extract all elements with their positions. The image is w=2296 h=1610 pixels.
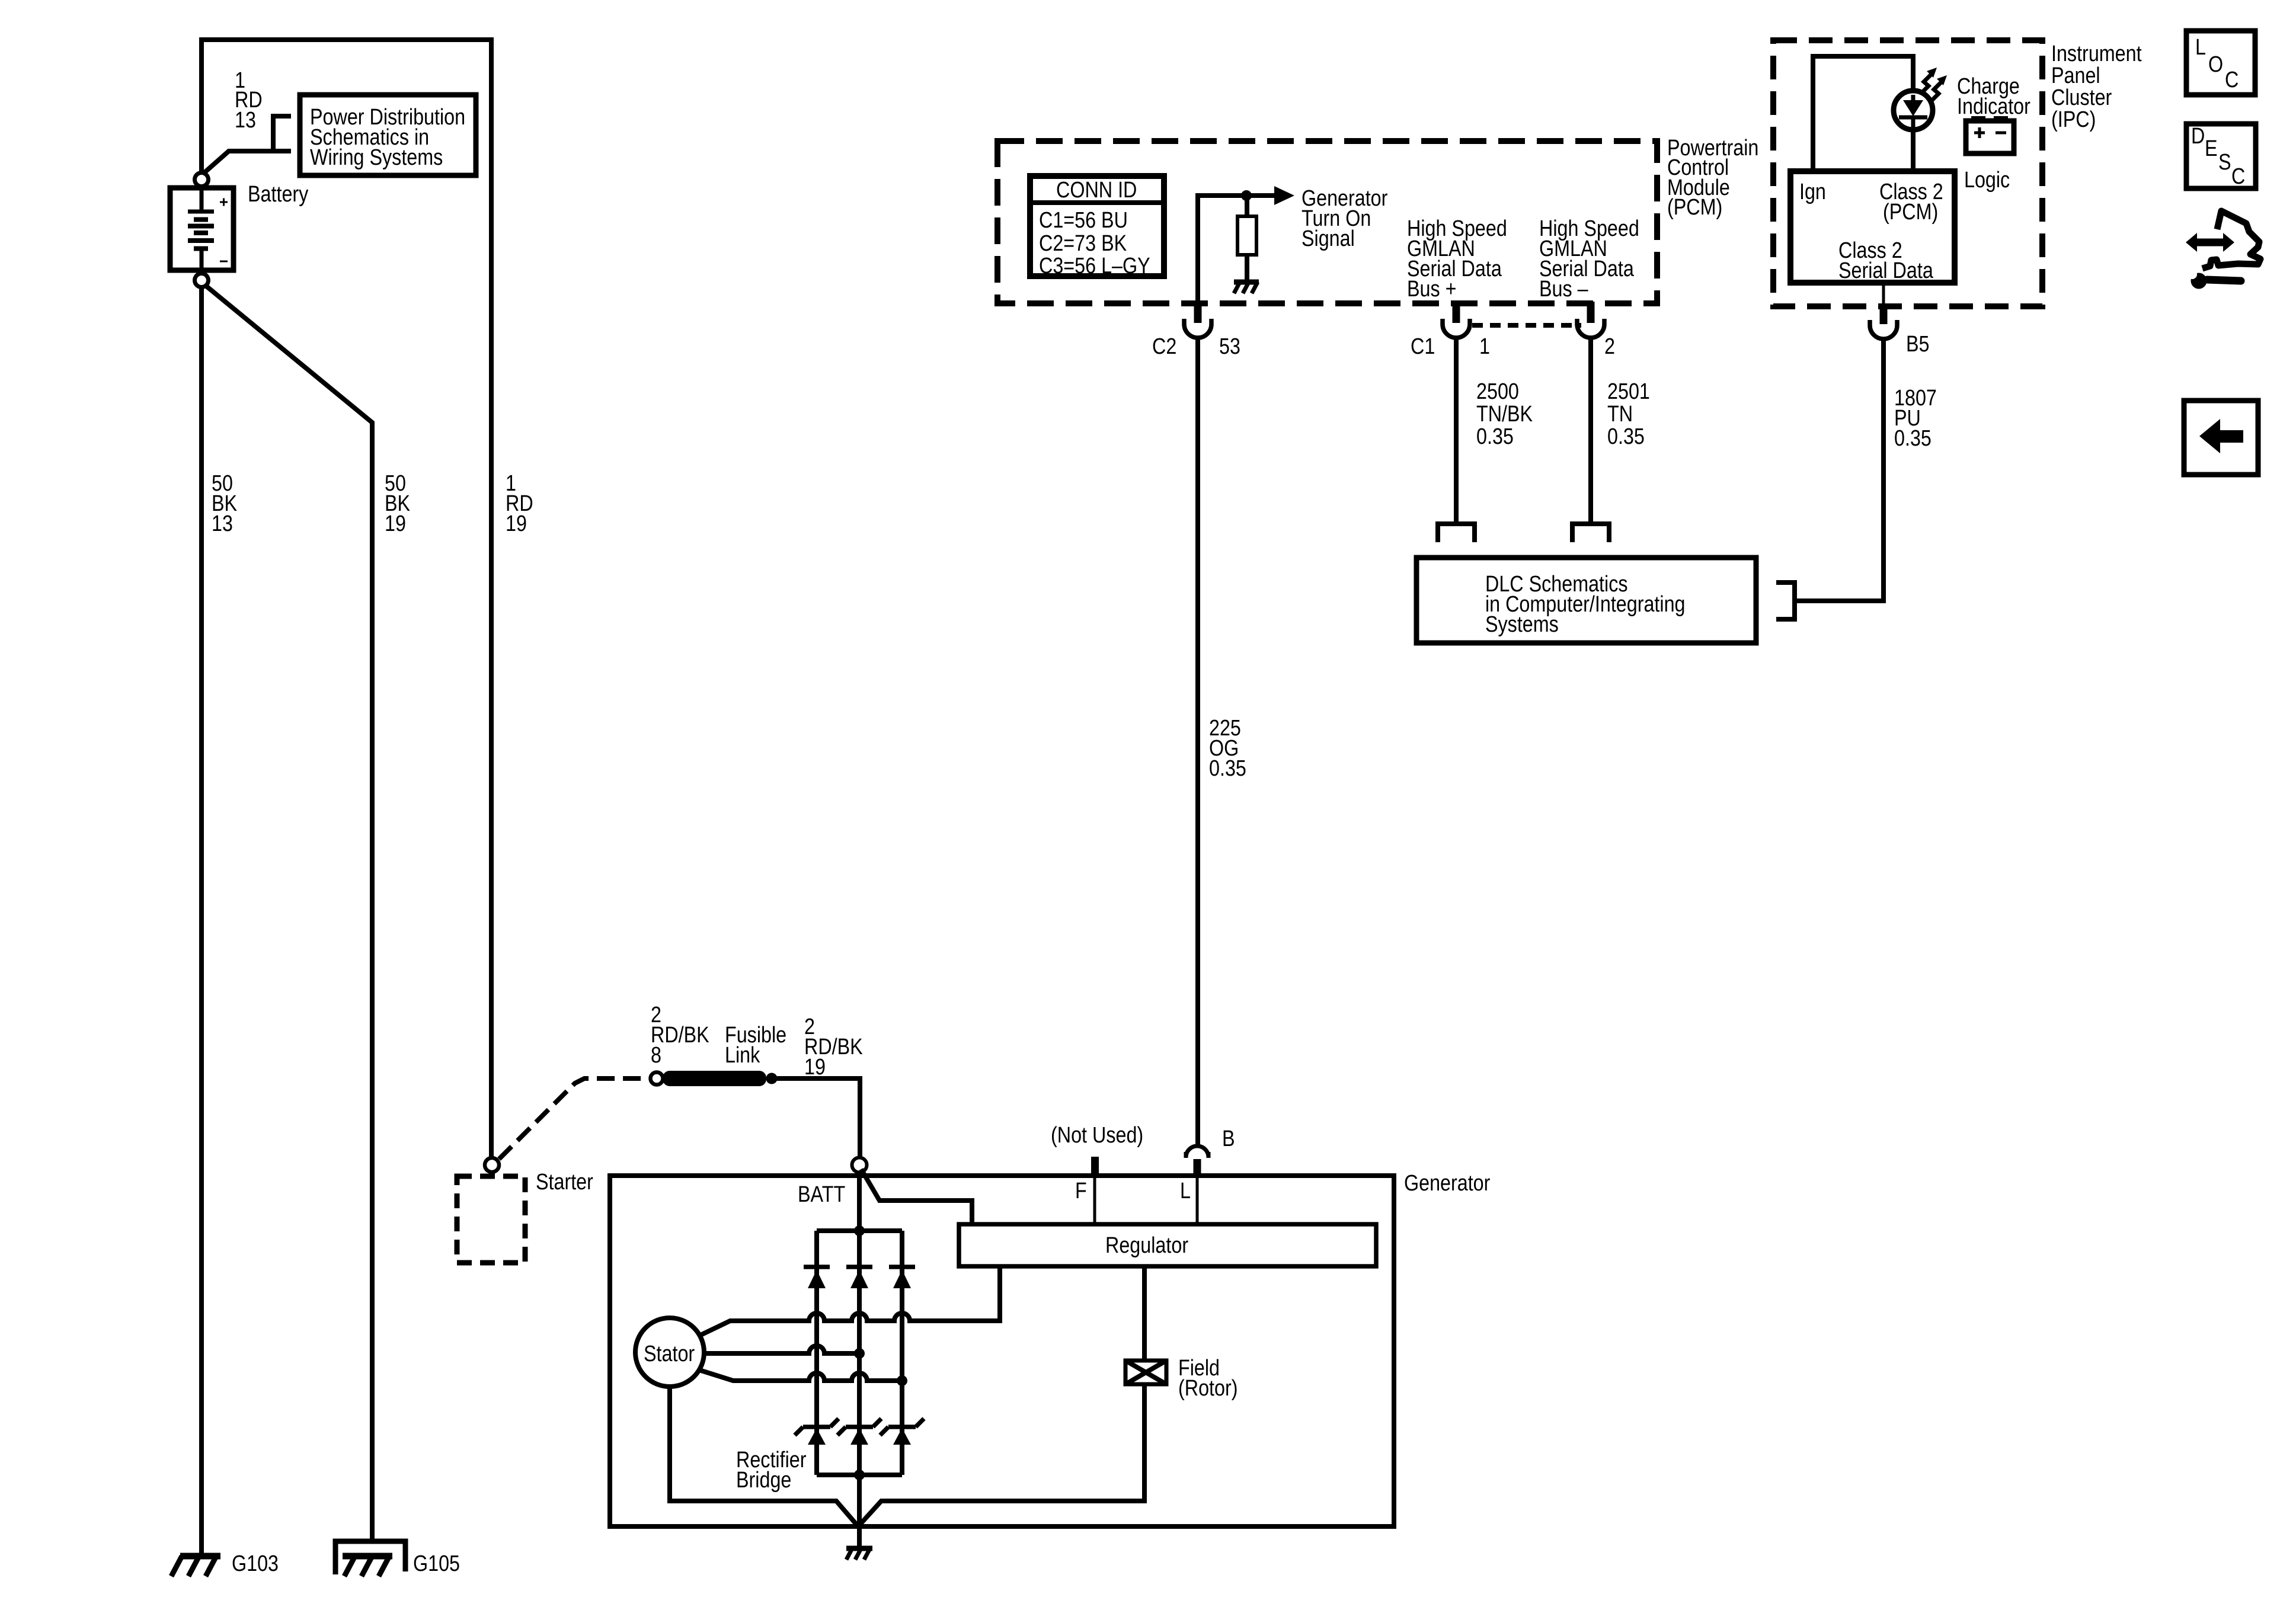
zener diode Z2 (lower, col2) <box>837 1419 881 1445</box>
legend back arrow box <box>2184 401 2258 475</box>
wire C2-53 internal to resistor node <box>1198 196 1246 302</box>
svg-text:Wiring Systems: Wiring Systems <box>310 145 443 170</box>
svg-text:G105: G105 <box>413 1551 460 1576</box>
wire 225 OG from C2 to generator B <box>1195 337 1200 1146</box>
battery B+ terminal circle <box>195 173 209 187</box>
legend jump icon double arrow <box>2186 233 2234 252</box>
svg-text:Indicator: Indicator <box>1957 94 2030 119</box>
starter dashed box <box>457 1176 525 1263</box>
svg-text:(PCM): (PCM) <box>1667 195 1722 220</box>
svg-text:2501: 2501 <box>1607 379 1650 404</box>
battery cell plates <box>200 187 204 273</box>
connector B half-circle <box>1186 1146 1208 1157</box>
svg-text:E: E <box>2205 136 2218 161</box>
ground G105 with bracket <box>335 1541 405 1576</box>
box Power Distribution Schematics in Wiring Systems <box>300 95 476 175</box>
svg-text:L: L <box>2195 35 2206 60</box>
wire field return to gather bus <box>858 1385 1144 1526</box>
svg-text:19: 19 <box>804 1055 826 1080</box>
battery telltale icon <box>1966 116 2014 153</box>
svg-text:Bus +: Bus + <box>1407 277 1457 302</box>
wire LED to logic box <box>1911 130 1916 171</box>
resistor R (pull-up) <box>1237 199 1256 281</box>
pin B5 stub <box>1880 303 1888 324</box>
off-page bracket DLC right <box>1776 582 1795 619</box>
svg-text:TN/BK: TN/BK <box>1476 402 1533 427</box>
svg-text:Cluster: Cluster <box>2051 85 2112 110</box>
svg-text:Stator: Stator <box>644 1342 695 1366</box>
junction dot fusible link right <box>766 1073 778 1084</box>
svg-text:(Rotor): (Rotor) <box>1178 1376 1238 1401</box>
wire stator common to gather bus <box>670 1387 858 1526</box>
svg-text:C1: C1 <box>1411 334 1435 359</box>
PCM dashed box <box>997 141 1657 303</box>
wire F pin to regulator <box>1093 1176 1096 1224</box>
svg-text:13: 13 <box>235 108 256 133</box>
rectifier bottom bus <box>817 1473 902 1477</box>
legend DESC box <box>2186 124 2256 189</box>
svg-text:Bridge: Bridge <box>736 1468 791 1493</box>
svg-text:0.35: 0.35 <box>1607 424 1645 449</box>
junction dot phase B col2 <box>854 1348 865 1359</box>
svg-text:8: 8 <box>651 1043 661 1068</box>
IPC logic box <box>1790 171 1955 283</box>
svg-text:Regulator: Regulator <box>1105 1233 1188 1258</box>
svg-text:19: 19 <box>385 511 406 536</box>
off-page bracket DLC pin 1 <box>1438 524 1475 542</box>
svg-text:L: L <box>1180 1179 1191 1204</box>
diode D2 (upper, col2) <box>846 1267 872 1288</box>
wire Ign loop to charge indicator <box>1813 56 1913 171</box>
svg-text:C2=73 BK: C2=73 BK <box>1039 231 1127 256</box>
wire 2500 TN/BK to DLC <box>1454 337 1459 524</box>
svg-text:Systems: Systems <box>1485 612 1559 637</box>
ground generator case <box>846 1548 872 1560</box>
wire logic box to B5 pin <box>1882 283 1885 304</box>
wire battery negative down to G103 <box>199 287 204 1554</box>
connector C2 cup <box>1184 319 1211 338</box>
battery plus mark <box>220 199 228 206</box>
fusible link F1 body <box>663 1071 766 1086</box>
wire BATT circle down to rectifier top bus <box>857 1172 862 1548</box>
svg-text:CONN ID: CONN ID <box>1056 178 1137 203</box>
connector 2 cup <box>1577 319 1604 338</box>
junction dot resistor node <box>1241 190 1252 201</box>
svg-text:(PCM): (PCM) <box>1883 200 1938 225</box>
svg-text:C2: C2 <box>1152 334 1176 359</box>
wire arrow generator turn on signal <box>1249 193 1275 198</box>
junction dot phase C col3 <box>897 1375 907 1386</box>
svg-text:O: O <box>2208 52 2223 77</box>
CONN ID table <box>1030 176 1164 279</box>
battery B- terminal circle <box>195 274 209 287</box>
zener diode Z3 (lower, col3) <box>880 1419 924 1445</box>
battery minus mark <box>220 261 228 263</box>
lightning emission arrows <box>1921 68 1947 101</box>
rectifier column 1 wire <box>814 1231 819 1475</box>
svg-text:Signal: Signal <box>1302 226 1355 251</box>
node starter stud circle <box>485 1158 499 1172</box>
box DLC Schematics <box>1416 558 1756 643</box>
svg-text:(Not Used): (Not Used) <box>1051 1123 1143 1148</box>
wire dashed twisted pair jumper <box>1472 323 1581 328</box>
diode D3 (upper, col3) <box>889 1267 915 1288</box>
svg-text:2: 2 <box>1604 334 1615 359</box>
wire top bus down to battery positive <box>199 37 204 173</box>
IPC dashed box <box>1773 40 2042 306</box>
zener diode Z1 (lower, col1) <box>795 1419 839 1445</box>
wire regulator to field <box>1142 1266 1147 1362</box>
svg-text:C1=56 BU: C1=56 BU <box>1039 208 1128 233</box>
legend LOC box <box>2186 31 2255 95</box>
terminal B stub <box>1194 1159 1201 1176</box>
ground PCM internal <box>1234 282 1259 293</box>
node BATT terminal circle <box>852 1158 867 1173</box>
wire stator phase A to regulator <box>699 1266 1000 1336</box>
stator circle <box>635 1318 704 1387</box>
diode D1 (upper, col1) <box>804 1267 830 1288</box>
svg-text:Link: Link <box>725 1043 760 1068</box>
svg-text:0.35: 0.35 <box>1894 426 1932 451</box>
wire battery feed rectangle (top bus, right vertical to starter) <box>202 40 491 1157</box>
pin C2-53 stub <box>1194 302 1202 323</box>
off-page bracket DLC pin 2 <box>1572 524 1609 542</box>
battery box <box>170 188 234 270</box>
wire 2501 TN to DLC <box>1588 337 1593 524</box>
svg-text:53: 53 <box>1219 334 1240 359</box>
wire stator phase C <box>699 1370 902 1381</box>
connector B5 cup <box>1870 320 1897 339</box>
rectifier column 3 wire <box>900 1231 904 1475</box>
svg-text:0.35: 0.35 <box>1476 424 1514 449</box>
svg-text:C3=56 L–GY: C3=56 L–GY <box>1039 254 1150 279</box>
wire dashed starter to fusible link <box>499 1078 650 1159</box>
LED charge indicator <box>1894 91 1933 132</box>
terminal F stub (Not Used) <box>1091 1157 1099 1176</box>
legend jump icon cell outline <box>2202 211 2260 268</box>
pin C1-1 stub <box>1453 302 1460 323</box>
svg-text:F: F <box>1075 1179 1087 1204</box>
svg-text:S: S <box>2218 150 2231 175</box>
svg-text:G103: G103 <box>232 1551 279 1576</box>
wire stator phase B <box>704 1346 859 1353</box>
svg-text:Ign: Ign <box>1799 180 1826 204</box>
svg-text:TN: TN <box>1607 402 1633 427</box>
svg-text:1: 1 <box>1479 334 1490 359</box>
rectifier top bus <box>817 1228 902 1233</box>
wire battery positive to power distribution bracket <box>204 116 291 173</box>
svg-text:2500: 2500 <box>1476 379 1519 404</box>
regulator box <box>959 1224 1376 1266</box>
svg-text:19: 19 <box>506 511 527 536</box>
svg-text:C: C <box>2225 68 2239 92</box>
svg-text:Bus –: Bus – <box>1539 277 1588 302</box>
svg-text:Panel: Panel <box>2051 63 2100 88</box>
wire L pin to regulator <box>1196 1176 1199 1224</box>
junction dot bottom bus <box>854 1470 865 1480</box>
wire fusible link to BATT <box>776 1078 860 1156</box>
svg-text:C: C <box>2231 164 2245 189</box>
svg-text:Logic: Logic <box>1964 168 2010 193</box>
svg-text:13: 13 <box>212 511 233 536</box>
ground G103 <box>171 1556 220 1576</box>
svg-text:Generator: Generator <box>1404 1171 1491 1196</box>
field (rotor) winding symbol <box>1125 1361 1166 1384</box>
connector C1 cup <box>1443 319 1470 338</box>
pin 2 stub <box>1587 302 1595 323</box>
svg-text:0.35: 0.35 <box>1209 756 1246 781</box>
fusible link terminal circle <box>651 1073 663 1085</box>
wire BATT diagonal feed to regulator <box>861 1169 972 1224</box>
wire battery negative diagonal to G105 drop <box>206 286 372 1541</box>
svg-text:(IPC): (IPC) <box>2051 107 2096 132</box>
junction dot top bus <box>854 1225 865 1236</box>
svg-text:B5: B5 <box>1906 332 1930 357</box>
svg-text:Serial Data: Serial Data <box>1838 258 1934 283</box>
svg-text:Battery: Battery <box>248 182 308 207</box>
svg-text:D: D <box>2191 124 2205 149</box>
svg-text:Starter: Starter <box>536 1170 593 1195</box>
wire 1807 PU DLC to IPC B5 <box>1795 338 1884 601</box>
svg-text:BATT: BATT <box>798 1182 845 1207</box>
legend jump icon wrench <box>2188 270 2241 289</box>
svg-text:Instrument: Instrument <box>2051 41 2142 66</box>
generator box <box>610 1176 1394 1526</box>
svg-text:B: B <box>1222 1126 1235 1151</box>
